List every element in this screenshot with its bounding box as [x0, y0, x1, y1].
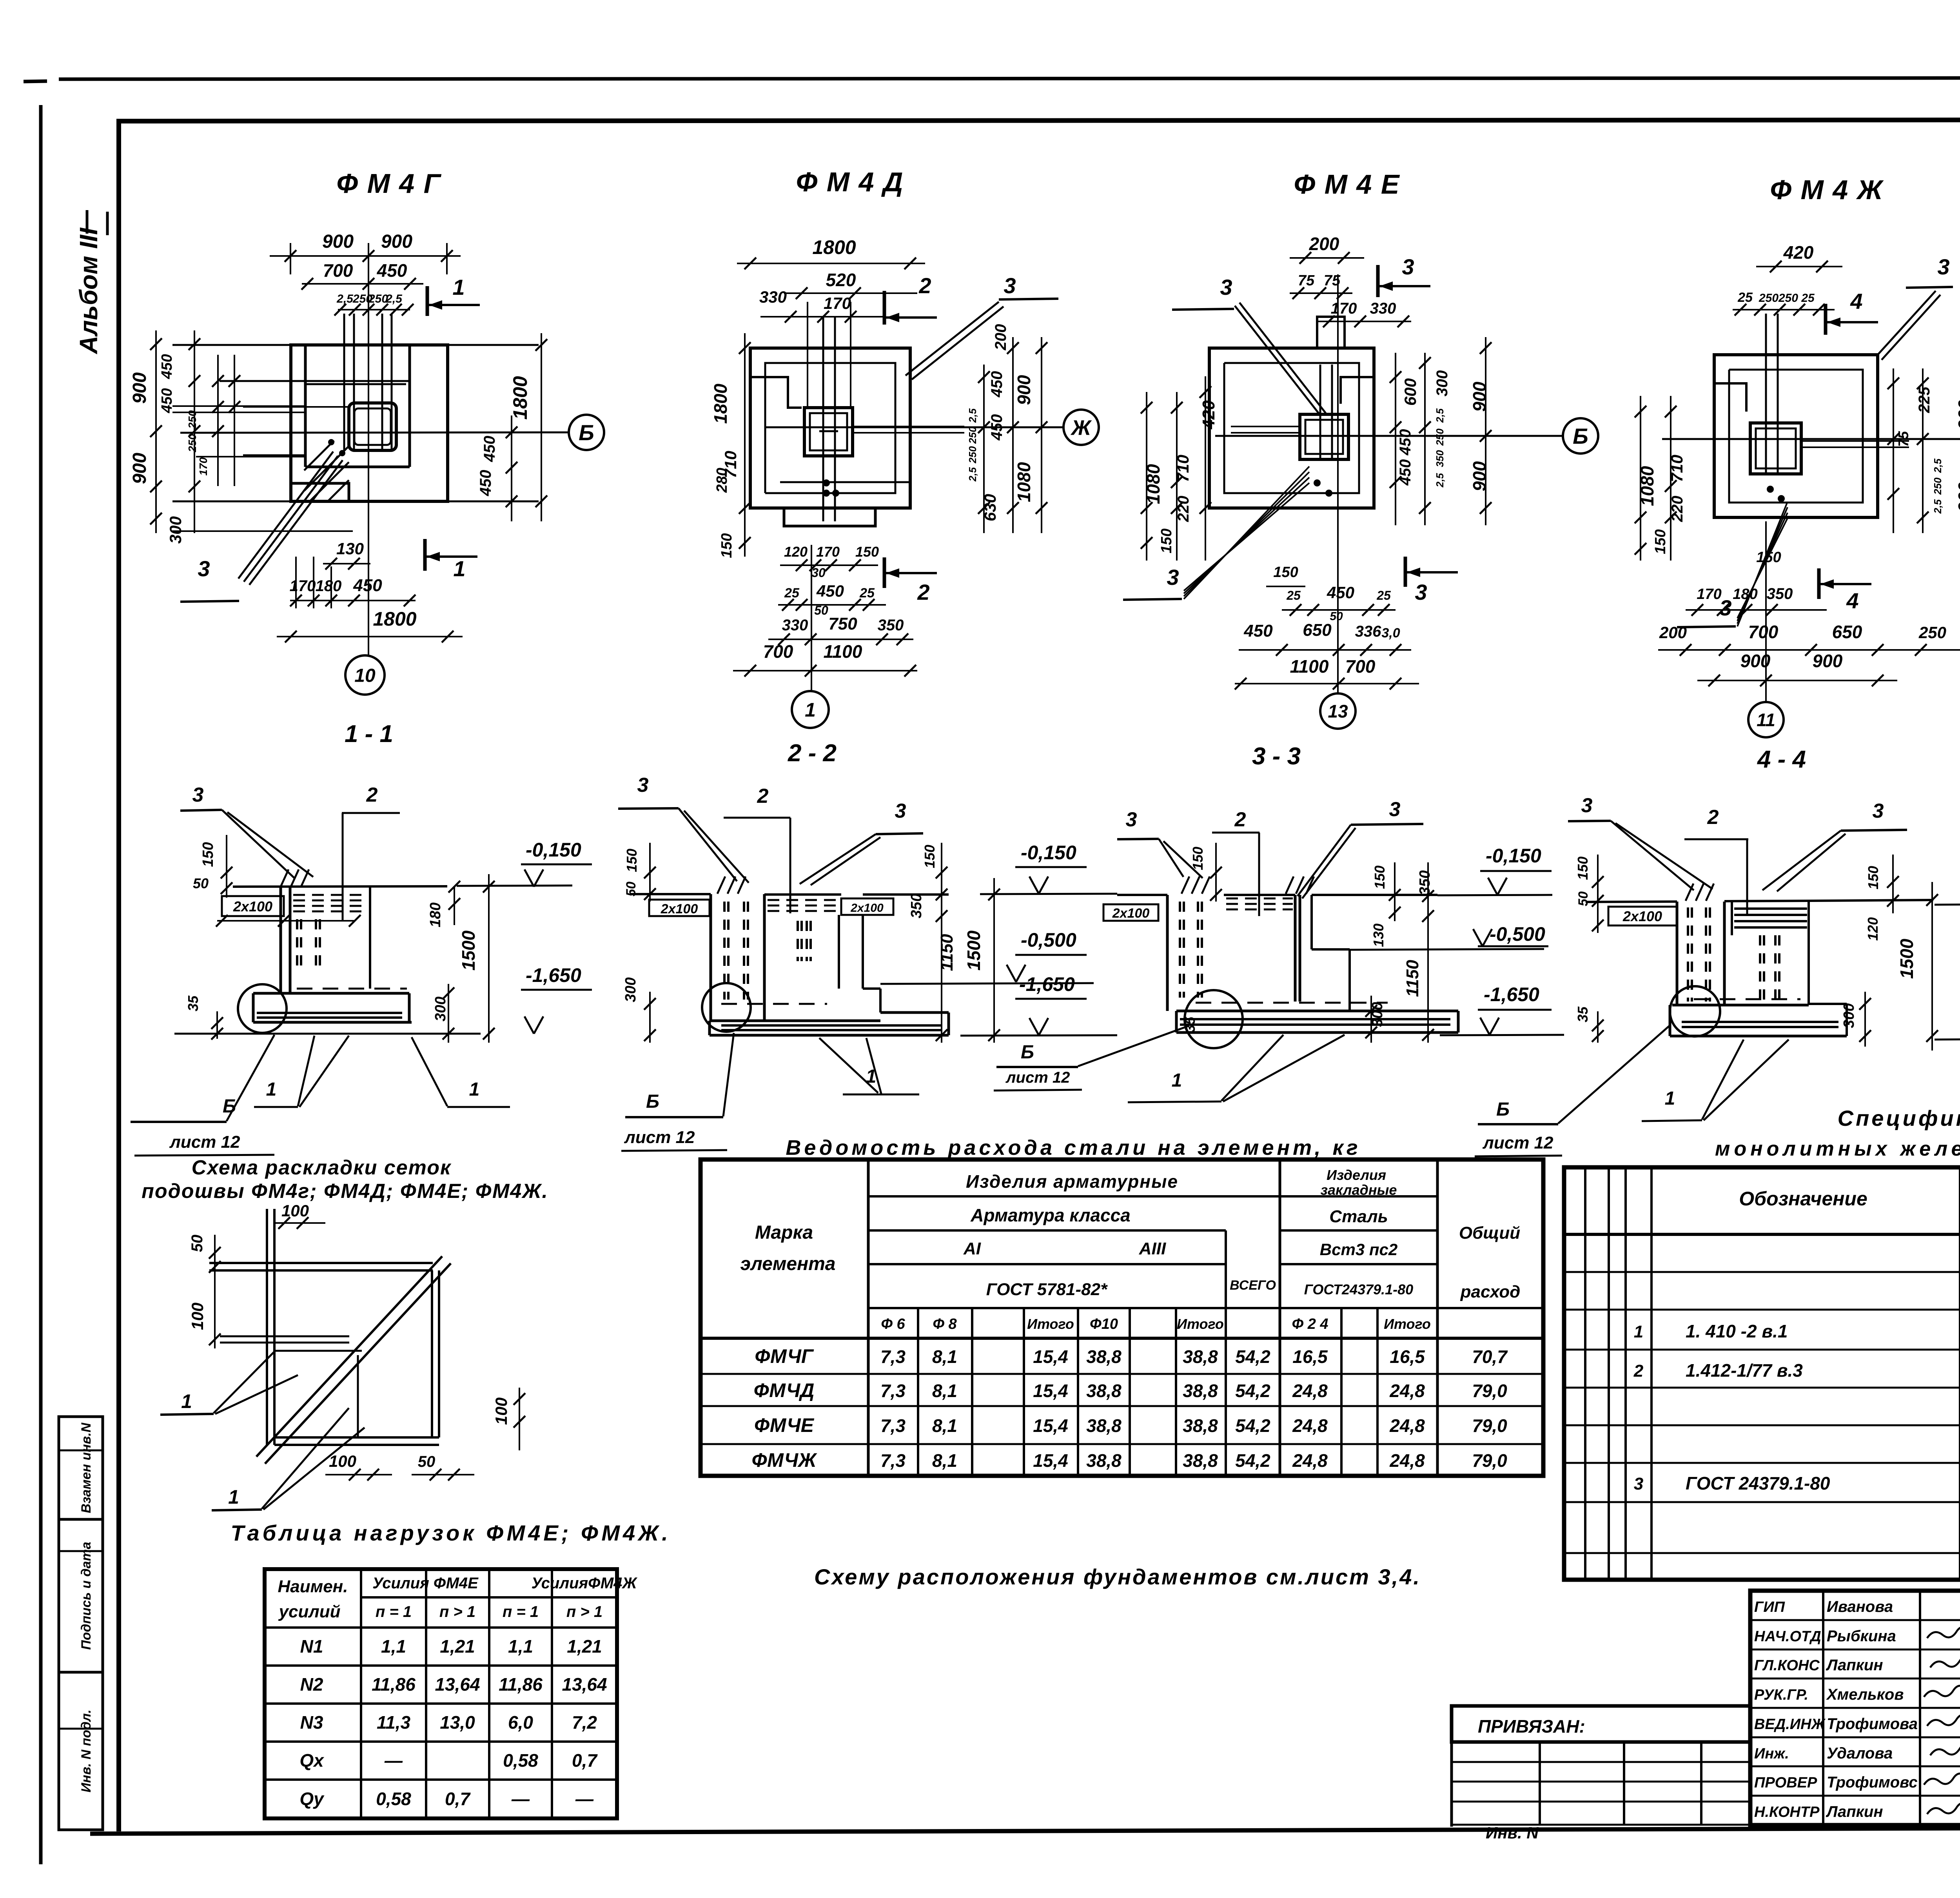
section 1-1 detail circle [238, 984, 287, 1033]
svg-text:180: 180 [1733, 586, 1757, 602]
svg-text:630: 630 [981, 494, 999, 521]
svg-text:Б: Б [1573, 424, 1588, 448]
svg-text:1. 410 -2 в.1: 1. 410 -2 в.1 [1686, 1321, 1788, 1341]
svg-text:Изделия: Изделия [1327, 1167, 1386, 1183]
svg-text:79,0: 79,0 [1472, 1415, 1507, 1436]
svg-text:50: 50 [418, 1453, 436, 1470]
svg-text:170: 170 [824, 294, 851, 312]
svg-text:2,5: 2,5 [967, 467, 978, 482]
svg-text:35: 35 [1575, 1006, 1591, 1022]
svg-text:Ф М 4 Ж: Ф М 4 Ж [1770, 174, 1884, 205]
svg-text:420: 420 [1199, 400, 1218, 430]
svg-text:10: 10 [354, 665, 376, 686]
plan FM4Zh axis circle 11 [1765, 521, 1767, 702]
svg-text:38,8: 38,8 [1183, 1346, 1218, 1367]
svg-text:2,5: 2,5 [336, 292, 354, 305]
svg-text:3: 3 [1937, 254, 1949, 279]
section 3-3 ground line [1117, 894, 1167, 896]
svg-text:ПРИВЯЗАН:: ПРИВЯЗАН: [1478, 1716, 1585, 1737]
svg-text:N2: N2 [300, 1674, 323, 1695]
svg-text:-1,650: -1,650 [1019, 973, 1075, 995]
svg-text:24,8: 24,8 [1292, 1381, 1328, 1401]
section 2-2 wall2 and ledge [838, 915, 840, 989]
svg-text:100: 100 [492, 1397, 510, 1425]
svg-text:150: 150 [1273, 564, 1298, 581]
title block frame [1750, 1591, 1960, 1825]
svg-text:330: 330 [759, 288, 787, 306]
svg-text:250: 250 [1918, 623, 1946, 642]
svg-text:170: 170 [816, 544, 840, 560]
svg-text:1800: 1800 [509, 376, 531, 419]
svg-text:450: 450 [988, 414, 1005, 441]
section 2-2 slab [710, 1020, 880, 1022]
svg-text:Ф 8: Ф 8 [933, 1316, 957, 1332]
svg-text:100: 100 [188, 1303, 207, 1330]
svg-text:300: 300 [1841, 1003, 1857, 1028]
plan FM4D pier tongue [784, 508, 875, 526]
svg-text:900: 900 [129, 453, 150, 484]
svg-text:100: 100 [329, 1452, 356, 1470]
plan FM4G axis line B [180, 432, 569, 433]
spec table grid [1564, 1167, 1960, 1580]
svg-text:Ведомость расхода стали на: Ведомость расхода стали на элемент, кг [786, 1136, 1361, 1159]
section 3-3 wall [1166, 895, 1169, 1011]
section 3-3 step ledge [1310, 895, 1313, 949]
svg-text:50: 50 [189, 1235, 206, 1252]
svg-text:Б: Б [646, 1091, 659, 1112]
svg-text:600: 600 [1401, 378, 1419, 406]
svg-text:-0,150: -0,150 [526, 839, 581, 861]
svg-text:-1,650: -1,650 [1484, 983, 1539, 1005]
svg-text:300: 300 [622, 977, 639, 1002]
svg-text:150: 150 [1158, 528, 1175, 553]
svg-text:Иванова: Иванова [1827, 1598, 1893, 1615]
svg-text:450: 450 [816, 582, 844, 600]
plan FM4G pier lines [304, 345, 307, 467]
svg-text:Обозначение: Обозначение [1739, 1188, 1867, 1210]
svg-text:Б: Б [579, 420, 594, 445]
svg-text:75: 75 [1298, 272, 1315, 289]
svg-text:13,64: 13,64 [562, 1674, 607, 1695]
margin strip box vzamen [59, 1417, 103, 1519]
svg-text:11,3: 11,3 [377, 1712, 411, 1733]
svg-text:усилий: усилий [278, 1602, 341, 1621]
svg-text:Инж.: Инж. [1754, 1746, 1789, 1762]
svg-text:150: 150 [200, 842, 216, 867]
plan FM4E right dims [1395, 353, 1396, 525]
margin strip box inv podl [59, 1672, 103, 1830]
section 4-4 2x100 box [1608, 907, 1677, 925]
svg-text:Изделия арматурные: Изделия арматурные [966, 1171, 1178, 1192]
svg-text:Инв. N подл.: Инв. N подл. [79, 1709, 94, 1793]
svg-text:38,8: 38,8 [1086, 1381, 1122, 1401]
svg-text:Подпись и дата: Подпись и дата [79, 1542, 94, 1650]
section 3-3 slab [1176, 1010, 1458, 1013]
svg-text:1: 1 [1665, 1088, 1675, 1109]
svg-text:700: 700 [323, 260, 353, 281]
svg-text:450: 450 [988, 371, 1005, 398]
svg-text:54,2: 54,2 [1235, 1346, 1270, 1367]
svg-text:3: 3 [1873, 800, 1884, 822]
svg-text:2х100: 2х100 [661, 902, 698, 916]
svg-text:7,3: 7,3 [880, 1381, 906, 1401]
svg-text:3: 3 [192, 784, 204, 806]
section 2-2 2x100 boxes [649, 900, 710, 916]
section 1-1 bottom ext line [174, 1033, 481, 1035]
plan FM4Zh outline outer [1714, 355, 1878, 517]
svg-text:Qу: Qу [299, 1789, 325, 1809]
plan FM4G rebar dots [328, 439, 334, 445]
section 1-1 ground line [233, 886, 447, 887]
svg-text:16,5: 16,5 [1390, 1346, 1425, 1367]
svg-text:2х100: 2х100 [1112, 906, 1150, 921]
svg-text:350: 350 [878, 617, 904, 634]
svg-text:2: 2 [1234, 808, 1246, 831]
svg-text:520: 520 [826, 270, 856, 290]
section 2-2 ground line [630, 893, 711, 895]
plan FM4E outline step topright [1341, 377, 1374, 404]
svg-text:15,4: 15,4 [1033, 1346, 1068, 1367]
svg-text:250: 250 [1778, 292, 1798, 305]
svg-text:1800: 1800 [710, 383, 731, 424]
svg-text:150: 150 [1652, 529, 1669, 554]
svg-text:24,8: 24,8 [1389, 1450, 1425, 1471]
section 3-3 2x100 box [1103, 904, 1158, 921]
plan FM4E section flag 3 top [1376, 265, 1380, 297]
section 4-4 bars block [1731, 901, 1733, 935]
svg-text:-0,500: -0,500 [1490, 923, 1545, 945]
plan FM4G outline step [291, 483, 349, 501]
svg-text:130: 130 [1370, 924, 1387, 947]
svg-text:50: 50 [193, 875, 209, 891]
svg-text:150: 150 [1865, 866, 1881, 889]
svg-text:170: 170 [290, 577, 316, 595]
svg-text:38,8: 38,8 [1183, 1381, 1218, 1401]
svg-text:3: 3 [1389, 798, 1401, 821]
section 4-4 slab [1672, 1004, 1809, 1007]
svg-text:Ж: Ж [1070, 416, 1092, 439]
svg-text:35: 35 [185, 995, 201, 1011]
plan FM4Zh inner step [1729, 370, 1863, 503]
svg-text:38,8: 38,8 [1183, 1450, 1218, 1471]
svg-text:25: 25 [859, 586, 875, 601]
svg-text:7,3: 7,3 [880, 1346, 906, 1367]
svg-text:150: 150 [1756, 549, 1781, 566]
svg-text:2: 2 [1707, 806, 1719, 829]
plan FM4G bar pair left [172, 405, 305, 407]
svg-text:900: 900 [1955, 482, 1960, 512]
svg-text:35: 35 [1182, 1016, 1198, 1032]
svg-text:150: 150 [922, 845, 938, 868]
plan FM4E axis line B [1215, 435, 1564, 437]
svg-text:ГОСТ 5781-82*: ГОСТ 5781-82* [986, 1280, 1108, 1299]
svg-text:1500: 1500 [964, 930, 984, 971]
svg-text:2: 2 [757, 785, 769, 807]
svg-text:250: 250 [967, 426, 978, 444]
svg-text:25: 25 [784, 586, 800, 601]
svg-text:N3: N3 [300, 1712, 323, 1733]
svg-text:170: 170 [1331, 300, 1357, 317]
plan FM4G long extension lines [172, 344, 539, 346]
sheet outer left border line [39, 105, 43, 1864]
svg-text:лист 12: лист 12 [1482, 1133, 1553, 1152]
svg-text:Удалова: Удалова [1827, 1745, 1893, 1762]
svg-text:700: 700 [763, 641, 793, 662]
svg-text:2,5: 2,5 [1434, 473, 1446, 488]
svg-text:2,5: 2,5 [1932, 458, 1944, 473]
plan FM4E axis circle B [1563, 418, 1598, 454]
plan FM4G hatch [304, 441, 334, 470]
svg-text:УсилияФМ4Ж: УсилияФМ4Ж [531, 1575, 637, 1592]
svg-text:50: 50 [624, 882, 639, 896]
plan FM4E column square [1300, 414, 1348, 459]
svg-text:1: 1 [228, 1486, 239, 1508]
svg-text:—: — [575, 1789, 594, 1809]
svg-text:330: 330 [782, 617, 808, 634]
svg-text:Арматура класса: Арматура класса [970, 1205, 1131, 1225]
svg-text:ГЛ.КОНС: ГЛ.КОНС [1754, 1657, 1820, 1674]
plan FM4D inner step [765, 363, 895, 493]
svg-text:1 - 1: 1 - 1 [345, 720, 393, 748]
svg-text:11: 11 [1757, 710, 1775, 730]
svg-text:450: 450 [477, 470, 494, 497]
svg-text:650: 650 [1303, 621, 1332, 640]
svg-text:ВСЕГО: ВСЕГО [1230, 1278, 1276, 1293]
svg-text:6,0: 6,0 [508, 1712, 533, 1733]
svg-text:2: 2 [366, 784, 378, 806]
svg-text:25: 25 [1286, 588, 1301, 602]
svg-text:1: 1 [452, 275, 465, 299]
svg-text:8,1: 8,1 [932, 1415, 957, 1436]
svg-text:450: 450 [1397, 459, 1414, 486]
svg-text:350: 350 [1767, 585, 1793, 602]
svg-text:450: 450 [159, 354, 175, 379]
svg-text:Трофимова: Трофимова [1827, 1715, 1918, 1733]
svg-text:НАЧ.ОТД: НАЧ.ОТД [1754, 1628, 1821, 1645]
svg-text:-1,650: -1,650 [526, 964, 581, 986]
svg-text:Итого: Итого [1027, 1316, 1074, 1332]
svg-text:24,8: 24,8 [1292, 1450, 1328, 1471]
svg-text:-0,150: -0,150 [1486, 845, 1541, 867]
svg-text:монолитных железобетонных: монолитных железобетонных конструкций. [1715, 1138, 1960, 1160]
svg-text:Рыбкина: Рыбкина [1827, 1628, 1896, 1645]
svg-text:2: 2 [918, 273, 931, 298]
svg-text:1100: 1100 [824, 641, 862, 662]
svg-text:7,2: 7,2 [572, 1712, 597, 1733]
svg-text:450: 450 [159, 388, 175, 413]
svg-text:180: 180 [427, 902, 444, 927]
svg-text:3: 3 [1415, 580, 1427, 604]
svg-text:ФМЧЕ: ФМЧЕ [754, 1414, 815, 1436]
svg-text:330: 330 [1370, 300, 1396, 317]
svg-text:0,58: 0,58 [376, 1789, 411, 1809]
section 4-4 detail circle [1670, 986, 1720, 1036]
svg-text:150: 150 [1372, 866, 1388, 889]
svg-text:24,8: 24,8 [1389, 1415, 1425, 1436]
svg-text:8,1: 8,1 [932, 1450, 957, 1471]
margin strip box podpis [59, 1519, 103, 1672]
svg-text:3: 3 [1004, 273, 1016, 298]
svg-text:50: 50 [1330, 610, 1343, 623]
svg-text:1500: 1500 [458, 930, 479, 971]
svg-text:1.412-1/77 в.3: 1.412-1/77 в.3 [1686, 1360, 1803, 1381]
svg-text:3: 3 [1634, 1474, 1643, 1493]
svg-text:1,21: 1,21 [440, 1636, 475, 1657]
svg-text:п > 1: п > 1 [439, 1603, 475, 1620]
svg-text:0,7: 0,7 [572, 1750, 598, 1771]
plan FM4D outline step topleft [750, 377, 802, 408]
svg-text:1080: 1080 [1014, 462, 1034, 502]
svg-text:700: 700 [1345, 656, 1376, 677]
svg-text:54,2: 54,2 [1235, 1381, 1270, 1401]
svg-text:Наимен.: Наимен. [278, 1577, 348, 1596]
svg-text:336: 336 [1355, 623, 1381, 640]
svg-text:13,0: 13,0 [440, 1712, 475, 1733]
plan FM4G leader 3 [238, 452, 333, 579]
privjazan table [1450, 1742, 1453, 1827]
plan FM4Zh right dims [1893, 368, 1894, 533]
svg-text:900: 900 [1014, 375, 1034, 405]
svg-text:8,1: 8,1 [932, 1346, 957, 1367]
plan FM4G column square [349, 403, 396, 450]
svg-text:420: 420 [1783, 242, 1814, 263]
svg-text:350: 350 [1434, 450, 1446, 467]
svg-text:Таблица нагрузок ФМ4Е; ФМ4Ж.: Таблица нагрузок ФМ4Е; ФМ4Ж. [230, 1521, 671, 1545]
svg-text:3 - 3: 3 - 3 [1252, 743, 1301, 770]
svg-text:Сталь: Сталь [1329, 1207, 1388, 1226]
plan FM4E axis circle 13 [1337, 274, 1339, 694]
svg-text:1800: 1800 [373, 608, 416, 630]
svg-text:3: 3 [1220, 275, 1232, 299]
svg-text:Итого: Итого [1177, 1316, 1224, 1332]
svg-text:15,4: 15,4 [1033, 1415, 1068, 1436]
svg-text:Итого: Итого [1384, 1316, 1431, 1332]
svg-text:200: 200 [1309, 234, 1339, 254]
svg-text:ПРОВЕР: ПРОВЕР [1754, 1775, 1817, 1791]
svg-text:8,1: 8,1 [932, 1381, 957, 1401]
svg-text:54,2: 54,2 [1235, 1415, 1270, 1436]
svg-text:Трофимовс: Трофимовс [1827, 1774, 1918, 1791]
svg-text:Марка: Марка [755, 1222, 813, 1243]
svg-text:1150: 1150 [937, 934, 956, 971]
svg-text:ФМЧД: ФМЧД [754, 1379, 815, 1401]
svg-text:п = 1: п = 1 [376, 1603, 412, 1620]
svg-text:280: 280 [714, 468, 730, 493]
svg-text:3: 3 [1402, 254, 1414, 279]
svg-text:ГОСТ24379.1-80: ГОСТ24379.1-80 [1304, 1281, 1413, 1297]
svg-text:—: — [384, 1750, 403, 1771]
mesh scheme drawing [266, 1209, 268, 1445]
svg-text:750: 750 [828, 614, 857, 633]
section 1-1 wall [279, 887, 282, 993]
svg-text:Взамен инв.N: Взамен инв.N [79, 1422, 94, 1513]
svg-text:1,1: 1,1 [508, 1636, 533, 1657]
svg-text:2х100: 2х100 [233, 898, 272, 915]
svg-text:Общий: Общий [1459, 1223, 1520, 1243]
section 1-1 2x100 box [222, 896, 284, 916]
plan FM4G section flag 1 top [426, 286, 429, 316]
svg-text:2х100: 2х100 [850, 902, 884, 915]
svg-text:4: 4 [1850, 289, 1862, 314]
svg-text:1500: 1500 [1896, 938, 1917, 979]
svg-text:25: 25 [1801, 292, 1815, 305]
svg-text:Qх: Qх [299, 1750, 325, 1771]
svg-text:лист 12: лист 12 [624, 1128, 695, 1147]
svg-text:Схема раскладки сеток: Схема раскладки сеток [192, 1156, 452, 1179]
svg-text:450: 450 [353, 576, 382, 595]
svg-text:Лапкин: Лапкин [1826, 1657, 1883, 1674]
plan FM4G right dim 1800 [541, 333, 542, 521]
svg-text:1: 1 [1172, 1070, 1182, 1091]
svg-text:200: 200 [1659, 623, 1687, 642]
svg-text:закладные: закладные [1321, 1182, 1397, 1198]
svg-text:подошвы ФМ4г; ФМ4Д; ФМ4Е; ФМ4Ж: подошвы ФМ4г; ФМ4Д; ФМ4Е; ФМ4Ж. [142, 1180, 548, 1203]
svg-text:2,5: 2,5 [967, 408, 978, 423]
svg-text:ФМЧГ: ФМЧГ [755, 1345, 814, 1367]
svg-text:250: 250 [1932, 477, 1944, 495]
plan FM4E outline outer [1209, 348, 1374, 508]
privjazan box [1452, 1706, 1750, 1742]
svg-text:3: 3 [637, 774, 649, 797]
svg-text:1: 1 [181, 1390, 192, 1412]
svg-text:Н.КОНТР: Н.КОНТР [1754, 1804, 1820, 1820]
svg-text:АIII: АIII [1139, 1239, 1166, 1258]
svg-text:3,0: 3,0 [1381, 626, 1400, 641]
plan FM4G section flag 1 bottom [423, 539, 427, 571]
plan FM4D section flag 2 bottom [883, 557, 886, 588]
svg-text:25: 25 [1376, 588, 1391, 602]
section 1-1 slab [253, 992, 409, 995]
plan FM4Zh outline step topleft [1714, 383, 1746, 412]
svg-text:ГИП: ГИП [1754, 1599, 1785, 1615]
svg-text:38,8: 38,8 [1086, 1450, 1122, 1471]
svg-text:450: 450 [1327, 583, 1354, 602]
svg-text:1,21: 1,21 [567, 1636, 602, 1657]
svg-text:1: 1 [453, 556, 465, 581]
plan FM4Zh axis line [1662, 438, 1960, 440]
svg-text:900: 900 [1813, 651, 1843, 671]
plan FM4G outline outer [291, 345, 448, 501]
svg-text:450: 450 [1243, 621, 1273, 641]
svg-text:450: 450 [1397, 429, 1414, 456]
plan FM4E inner step [1224, 363, 1359, 493]
svg-text:250: 250 [186, 410, 198, 429]
plan FM4D right dims [983, 365, 985, 533]
svg-text:1: 1 [805, 699, 816, 721]
svg-text:25: 25 [1737, 290, 1753, 305]
svg-text:4: 4 [1846, 588, 1858, 613]
svg-text:1: 1 [266, 1079, 277, 1100]
svg-text:300: 300 [1434, 370, 1451, 397]
svg-text:180: 180 [316, 577, 342, 595]
plan FM4D column square [804, 408, 853, 456]
svg-text:лист 12: лист 12 [1005, 1069, 1070, 1086]
svg-text:120: 120 [784, 544, 808, 560]
svg-text:Ф 6: Ф 6 [881, 1316, 905, 1332]
svg-text:150: 150 [855, 544, 879, 560]
svg-text:350: 350 [1417, 870, 1433, 895]
svg-text:Альбом III: Альбом III [74, 227, 103, 354]
svg-text:2,5: 2,5 [1434, 408, 1446, 423]
svg-text:Ф М 4 Д: Ф М 4 Д [796, 167, 904, 197]
plan FM4Zh section flag 4 top [1824, 304, 1828, 335]
svg-text:170: 170 [197, 457, 209, 475]
svg-text:15,4: 15,4 [1033, 1381, 1068, 1401]
svg-text:ГОСТ 24379.1-80: ГОСТ 24379.1-80 [1686, 1473, 1830, 1493]
svg-text:2,5: 2,5 [1932, 499, 1944, 514]
svg-text:11,86: 11,86 [499, 1674, 543, 1695]
svg-text:3: 3 [198, 556, 210, 581]
